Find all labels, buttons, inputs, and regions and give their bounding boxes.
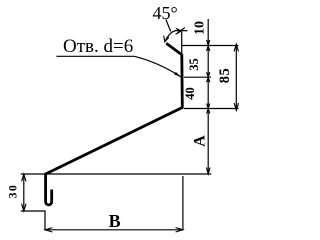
wall extension line (thin) — [181, 32, 183, 55]
hole extension line y=75.8 — [184, 76, 211, 78]
text: dim 85 — [217, 61, 234, 90]
text: dim 35 — [187, 50, 202, 79]
B left extension x=45 — [44, 211, 46, 230]
dimension line 30 at x=23.8 — [23, 174, 25, 211]
leader diagonal to hole — [134, 56, 181, 77]
arc arrowhead left (on tab) — [164, 36, 169, 42]
arrow pair at (208.2,45.5) — [207, 40, 210, 46]
profile outline: tab, wall, slope, drip edge, hem — [46, 43, 183, 205]
A bottom extension line y=174 — [21, 173, 212, 175]
dimension line stack 10/35/40/A at x=208.2 — [207, 19, 209, 173]
leader shelf (underline of Отв. d=6) — [57, 55, 135, 57]
text: hole callout — [63, 36, 133, 58]
B left arrow — [45, 228, 52, 232]
85 top arrow — [234, 44, 238, 51]
30 bottom extension line y=211 — [21, 210, 46, 212]
45deg dimension arc — [165, 30, 182, 41]
B right arrow — [176, 228, 183, 232]
text: dim 10 — [192, 14, 208, 43]
text: dim 30 — [7, 176, 19, 205]
text: 45 degrees — [153, 3, 178, 24]
leader arrowhead at hole — [174, 72, 181, 77]
dimension line B at y=229 — [45, 229, 183, 231]
short extension line (top of 10) — [177, 30, 188, 32]
85 bottom arrow — [234, 103, 238, 110]
oblique tick at top — [177, 28, 185, 33]
text: dim A — [191, 126, 209, 155]
A bottom arrow at (208.2,174) — [206, 168, 210, 175]
text: dim 40 — [183, 79, 198, 108]
text: dim B — [109, 211, 121, 232]
30 bottom arrow — [22, 204, 26, 211]
arrow pair at (208.2,75.8) — [207, 72, 210, 77]
arc arrowhead right (on wall extension) — [176, 28, 182, 34]
45deg leader — [166, 20, 171, 32]
long extension line y=45.5 (top of 35/85) — [182, 45, 239, 47]
B right extension x=182.9 — [182, 176, 184, 230]
dimension line 85 at x=236.3 — [235, 44, 237, 110]
corner extension line y=108.5 — [184, 108, 239, 110]
30 top arrow — [22, 174, 26, 181]
arrow pair at (208.2,108.5) — [207, 104, 210, 109]
